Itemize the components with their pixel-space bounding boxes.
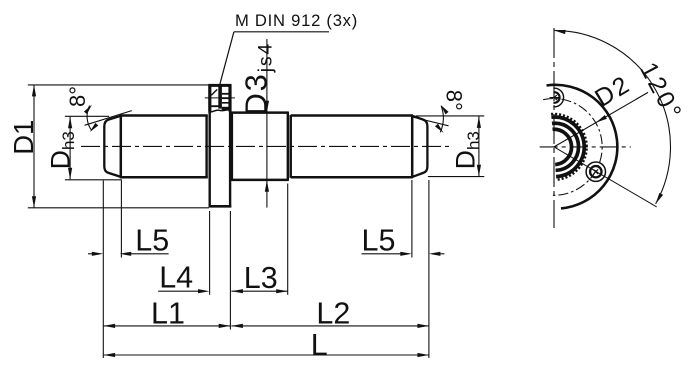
- bore circle middle: [552, 123, 579, 170]
- svg-text:L2: L2: [316, 297, 350, 331]
- flange outer circle: [547, 85, 618, 209]
- middle section bottom edge: [231, 179, 289, 182]
- shaft left section chamfer edge: [120, 115, 123, 178]
- dimension Dh3-left line: [69, 117, 71, 180]
- flange top edge: [209, 84, 232, 87]
- clamp screw thread line 2: [222, 97, 229, 99]
- dimension L2 arrow right: [417, 324, 429, 328]
- dimension D3js4 arrow bottom: [265, 180, 269, 192]
- extension line at left chamfer: [120, 180, 122, 258]
- dimension L3 line: [231, 290, 287, 292]
- screw head left edge overlay: [208, 84, 211, 111]
- dimension L5-right arrow left: [400, 252, 412, 256]
- shaft left section top edge: [120, 114, 208, 117]
- screw hole 2 (lower right): [586, 162, 605, 181]
- dimension D1 extension line top: [28, 84, 209, 86]
- flange bottom edge: [209, 205, 232, 208]
- chamfer angle arc right: [440, 106, 443, 132]
- chamfer angle arrow left bottom: [90, 123, 99, 132]
- dimension Dh3-right arrow bottom: [477, 165, 481, 177]
- chamfer angle arrow right bottom: [435, 124, 444, 133]
- dimension L line: [104, 354, 429, 356]
- dimension 120deg arrow top: [554, 30, 566, 34]
- dimension D1 arrow top: [32, 85, 36, 97]
- dimension L5-left line outer-left: [88, 253, 93, 255]
- svg-text:8°: 8°: [65, 86, 90, 107]
- bolt circle (dash-dot): [543, 99, 602, 196]
- chamfer angle arrow left top: [84, 105, 92, 115]
- leader underline M DIN 912: [234, 31, 329, 33]
- dimension Dh3-right extension line bottom: [428, 176, 484, 178]
- screw head right edge overlay: [228, 84, 231, 111]
- chamfer angle line right: [412, 117, 448, 126]
- dimension D1 extension line bottom: [28, 207, 209, 209]
- extension line at shaft right end: [428, 180, 430, 358]
- chamfer angle line left: [85, 111, 132, 126]
- shaft right section outline (end face with chamfer): [412, 116, 427, 177]
- extension line at flange left: [209, 211, 211, 295]
- dimension L1 arrow right: [219, 324, 231, 328]
- middle section left edge: [231, 112, 233, 180]
- svg-text:L5: L5: [135, 224, 169, 258]
- chamfer angle arc left: [87, 106, 92, 131]
- dimension L5-left line to label: [131, 253, 169, 255]
- dimension L3 arrow right: [276, 289, 288, 293]
- dimension L2 line: [231, 325, 429, 327]
- bore circle inner: [553, 129, 572, 164]
- dimension D2 leader line: [554, 92, 648, 146]
- bore circle outer (serrated): [551, 117, 584, 177]
- extension line at shaft left end: [102, 181, 104, 359]
- shaft right section bottom edge: [291, 176, 413, 179]
- dimension D2 arrow: [596, 115, 607, 123]
- clamp screw socket bottom: [211, 105, 219, 107]
- svg-text:L5: L5: [362, 224, 396, 258]
- end view vertical centerline: [553, 28, 555, 228]
- shaft right section top edge: [291, 114, 413, 117]
- dimension L4 line: [158, 290, 198, 292]
- shaft left section right shoulder edge: [205, 116, 207, 178]
- clamp screw socket chamfer: [211, 89, 217, 95]
- clamp screw thread root fill: [222, 107, 230, 111]
- dimension L arrow left: [104, 353, 116, 357]
- screw hole 1 cross tick: [550, 97, 560, 99]
- shaft left section bottom edge: [120, 176, 208, 179]
- svg-text:L4: L4: [159, 261, 193, 295]
- screw hole 2 radial centerline: [554, 147, 657, 207]
- dimension Dh3-right line: [478, 116, 480, 176]
- dimension L1 arrow left: [104, 324, 116, 328]
- svg-text:8°: 8°: [442, 90, 467, 111]
- dimension D1 line: [33, 85, 35, 208]
- shaft right section chamfer edge: [411, 115, 414, 178]
- dimension Dh3-left extension line top: [65, 115, 109, 117]
- screw hole 1 (top): [545, 88, 564, 107]
- clamp screw centerline: [205, 97, 235, 99]
- dimension Dh3-left arrow bottom: [68, 168, 72, 180]
- extension line at middle section right: [287, 184, 289, 295]
- dimension D3js4 arrow top: [265, 101, 269, 113]
- shaft left section outline (end face with chamfer): [104, 116, 121, 177]
- dimension L5-right arrow right: [429, 252, 441, 256]
- middle section top edge: [231, 111, 289, 114]
- dimension L arrow right: [417, 353, 429, 357]
- svg-text:M DIN 912 (3x): M DIN 912 (3x): [235, 11, 358, 30]
- extension line at right chamfer: [411, 180, 413, 258]
- svg-text:L: L: [311, 328, 328, 362]
- end view horizontal centerline: [540, 146, 631, 148]
- dimension Dh3-left extension line bottom: [65, 179, 122, 181]
- flange right edge: [229, 84, 231, 207]
- leader line to screw: [220, 32, 234, 85]
- dimension 120deg arc: [554, 30, 670, 204]
- dimension L5-right line to label: [362, 253, 402, 255]
- dimension L5-left arrow left: [92, 252, 104, 256]
- dimension Dh3-right extension line top: [416, 115, 485, 117]
- extension line at flange right: [229, 211, 231, 330]
- chamfer angle arrow right top: [441, 105, 449, 115]
- clamp screw thread line 3: [222, 102, 229, 104]
- centerline of shaft: [81, 145, 449, 147]
- dimension L1 line: [104, 325, 231, 327]
- dimension L5-right line outer-right: [440, 253, 444, 255]
- middle section right edge: [287, 112, 289, 180]
- dimension D1 arrow bottom: [32, 196, 36, 208]
- dimension L4 arrow: [198, 289, 210, 293]
- dimension D3js4 line upper: [266, 39, 268, 180]
- dimension L5-left arrow right: [120, 252, 132, 256]
- clamp screw thread line 1: [222, 93, 229, 95]
- svg-text:L1: L1: [151, 297, 185, 331]
- svg-text:L3: L3: [244, 261, 278, 295]
- dimension Dh3-right arrow top: [477, 116, 481, 128]
- clamp screw shank edge: [218, 86, 222, 108]
- partial section break line (wavy): [208, 110, 231, 113]
- dimension D3js4 tail lower: [266, 180, 268, 207]
- serration ring: [551, 114, 587, 180]
- dimension L2 arrow left: [231, 324, 243, 328]
- dimension 120deg arrow bottom: [656, 193, 664, 204]
- svg-text:D1: D1: [8, 120, 39, 155]
- dimension L3 arrow left: [231, 289, 243, 293]
- shaft right section left shoulder edge: [289, 115, 292, 178]
- flange left edge: [208, 84, 210, 207]
- dimension Dh3-left arrow top: [68, 117, 72, 129]
